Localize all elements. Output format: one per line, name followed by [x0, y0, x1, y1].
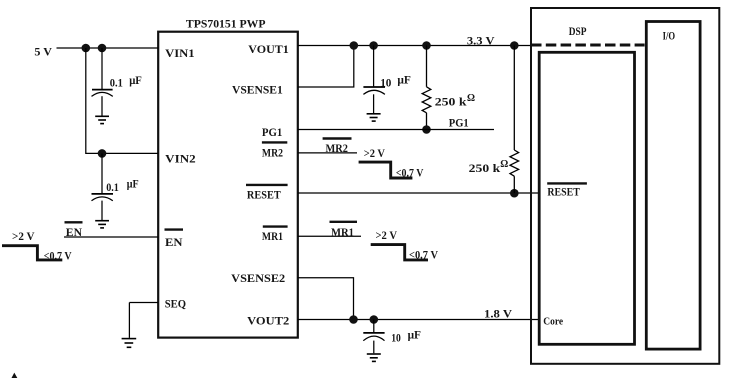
- junction dot A3: [98, 149, 107, 158]
- svg-text:MR2: MR2: [326, 141, 348, 155]
- junction dot B2: [369, 41, 378, 50]
- svg-text:250 k: 250 k: [469, 163, 501, 175]
- svg-text:Ω: Ω: [467, 93, 475, 104]
- I/O box: [646, 22, 700, 350]
- svg-text:10: 10: [380, 77, 391, 89]
- capacitor C3 10 uF: [363, 46, 385, 114]
- svg-text:<0.7 V: <0.7 V: [409, 249, 439, 261]
- svg-text:>2 V: >2 V: [12, 231, 35, 243]
- junction dot C2d: [370, 315, 379, 324]
- svg-text:VOUT1: VOUT1: [248, 43, 289, 56]
- svg-text:DSP: DSP: [569, 26, 587, 38]
- ground G1: [95, 116, 109, 123]
- svg-text:RESET: RESET: [547, 187, 580, 199]
- ground G5: [367, 354, 381, 361]
- wire VSENSE1 feedback: [298, 46, 354, 88]
- svg-text:SEQ: SEQ: [165, 298, 186, 311]
- op-amp U1 TPS70151 PWP box: [158, 32, 298, 338]
- junction dot B5: [422, 125, 431, 134]
- capacitor C2 0.1 uF: [92, 153, 114, 220]
- svg-text:VOUT2: VOUT2: [247, 314, 289, 327]
- svg-text:10: 10: [391, 333, 401, 345]
- ground G4: [367, 114, 381, 121]
- svg-text:<0.7 V: <0.7 V: [396, 168, 424, 180]
- svg-text:3.3 V: 3.3 V: [467, 33, 495, 47]
- wire VOUT1 3.3V rail: [298, 45, 531, 47]
- junction dot B4: [510, 41, 519, 50]
- junction dot B1: [350, 41, 359, 50]
- svg-text:EN: EN: [165, 236, 183, 249]
- wire VSENSE2 feedback: [298, 278, 354, 320]
- capacitor C4 10 uF: [363, 320, 384, 354]
- wire MR2: [298, 152, 357, 154]
- junction dot B3: [422, 41, 431, 50]
- svg-text:μF: μF: [397, 75, 411, 87]
- svg-text:MR2: MR2: [262, 147, 283, 160]
- DSP outer box: [531, 8, 719, 364]
- resistor R1 250 k: [422, 46, 431, 130]
- capacitor C1 0.1 uF: [92, 48, 113, 116]
- svg-text:1.8 V: 1.8 V: [484, 307, 512, 321]
- wire RESET: [298, 192, 538, 194]
- DSP core inner box: [539, 52, 634, 344]
- wire EN to IC: [64, 236, 158, 238]
- wire VIN1 branch down to VIN2: [86, 48, 158, 153]
- svg-text:VIN2: VIN2: [165, 153, 196, 166]
- svg-text:μF: μF: [408, 330, 421, 342]
- wire PG1: [298, 129, 494, 131]
- svg-text:μF: μF: [127, 179, 139, 191]
- wire MR1: [298, 235, 361, 237]
- svg-text:Ω: Ω: [500, 159, 508, 170]
- ground G3: [122, 339, 137, 348]
- node MR1 external label: [330, 221, 358, 223]
- svg-text:μF: μF: [129, 75, 142, 87]
- node EN external label: [65, 222, 83, 239]
- node RESET label in DSP (overlined): [547, 182, 587, 184]
- svg-text:250 k: 250 k: [435, 97, 467, 109]
- marker arrowhead bottom-left: [12, 373, 18, 378]
- pin EN (inside, overlined): [165, 228, 184, 230]
- node MR2 external label: [323, 137, 352, 139]
- svg-text:VSENSE2: VSENSE2: [231, 272, 285, 285]
- wire SEQ: [129, 303, 158, 338]
- svg-text:MR1: MR1: [262, 230, 283, 243]
- pin RESET (overlined): [246, 184, 288, 186]
- svg-text:MR1: MR1: [331, 225, 354, 239]
- pin MR2 (overlined): [262, 141, 287, 143]
- svg-text:RESET: RESET: [247, 188, 281, 201]
- svg-text:<0.7 V: <0.7 V: [44, 250, 72, 262]
- wire dashed 3.3V inside DSP: [531, 44, 645, 47]
- ground G2: [95, 221, 109, 228]
- svg-text:Core: Core: [543, 316, 563, 328]
- junction dot B6: [510, 189, 519, 198]
- junction dot A1: [82, 44, 91, 53]
- svg-text:PG1: PG1: [449, 115, 469, 129]
- svg-text:0.1: 0.1: [106, 182, 119, 194]
- wire 5V to VIN1: [57, 47, 159, 49]
- svg-text:>2 V: >2 V: [364, 148, 386, 160]
- svg-text:I/O: I/O: [663, 30, 676, 42]
- junction dot A2: [98, 44, 107, 53]
- svg-text:0.1: 0.1: [110, 77, 123, 89]
- svg-text:>2 V: >2 V: [376, 230, 398, 242]
- junction dot C1d: [349, 315, 358, 324]
- pin MR1 (overlined): [263, 225, 288, 227]
- wire VOUT2 1.8V rail: [298, 319, 538, 321]
- resistor R2 250 k: [510, 46, 519, 194]
- svg-text:VIN1: VIN1: [165, 47, 195, 60]
- svg-text:PG1: PG1: [262, 126, 283, 139]
- svg-text:VSENSE1: VSENSE1: [232, 84, 283, 97]
- svg-text:TPS70151 PWP: TPS70151 PWP: [186, 19, 266, 31]
- svg-text:5 V: 5 V: [34, 45, 52, 59]
